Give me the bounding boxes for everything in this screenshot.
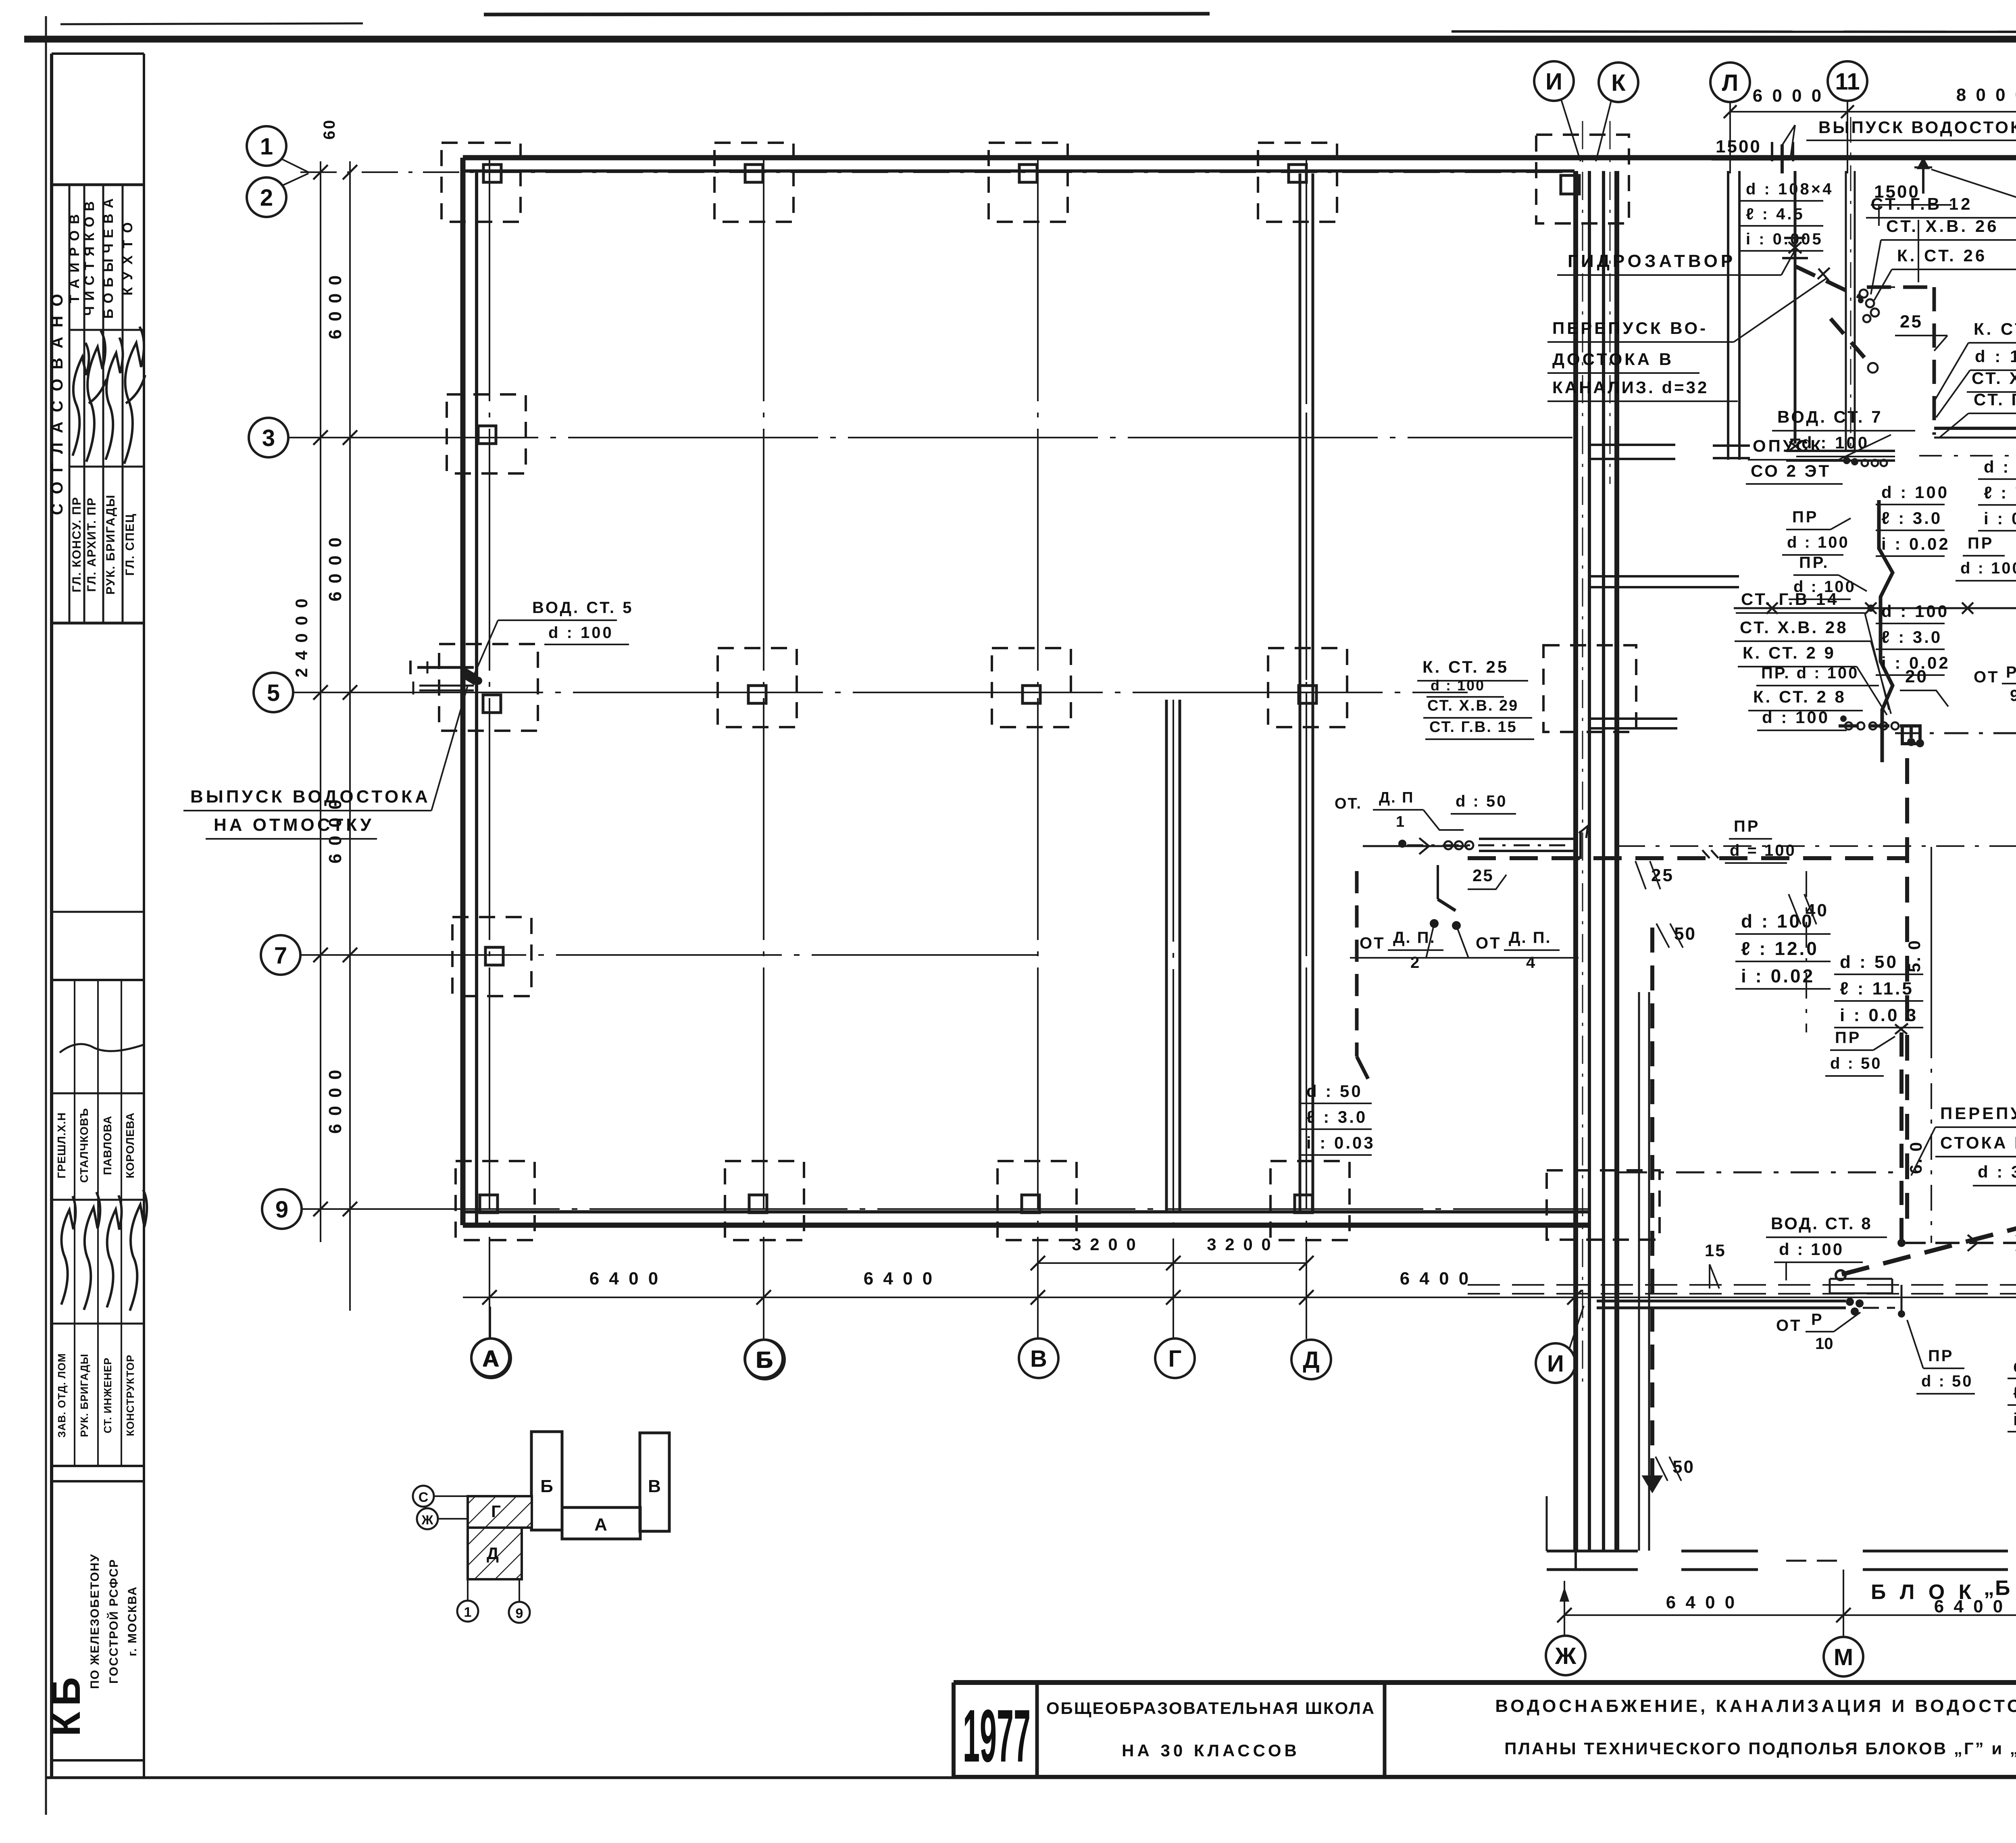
svg-text:ГЛ. АРХИТ. ПР: ГЛ. АРХИТ. ПР bbox=[85, 497, 98, 592]
svg-text:25: 25 bbox=[1472, 866, 1494, 885]
svg-text:Т А И Р О В: Т А И Р О В bbox=[67, 213, 82, 303]
svg-text:1977: 1977 bbox=[963, 1695, 1031, 1778]
junction dots under опуск bbox=[1843, 457, 1887, 466]
key plan hatched block Д bbox=[468, 1528, 522, 1579]
svg-text:ПАВЛОВА: ПАВЛОВА bbox=[101, 1115, 114, 1175]
axis circle Ж bottom bbox=[1546, 1636, 1585, 1675]
svg-text:ОТ: ОТ bbox=[1776, 1317, 1802, 1334]
title block year 1977 bbox=[963, 1695, 1031, 1778]
svg-text:3: 3 bbox=[262, 425, 275, 451]
svg-text:ПР: ПР bbox=[1928, 1347, 1954, 1365]
svg-text:ПЛАНЫ ТЕХНИЧЕСКОГО ПОДПОЛЬЯ БЛ: ПЛАНЫ ТЕХНИЧЕСКОГО ПОДПОЛЬЯ БЛОКОВ „Г” и… bbox=[1504, 1739, 2016, 1758]
key plan circle Б bbox=[745, 1340, 783, 1378]
label от Д.П./4 bbox=[1476, 929, 1579, 972]
bottom dim line and labels 6400 6400 bbox=[1557, 1570, 2016, 1636]
svg-text:И: И bbox=[1547, 1351, 1564, 1377]
left plan left wall bbox=[463, 158, 477, 1225]
svg-text:К. СТ. 26: К. СТ. 26 bbox=[1897, 246, 1987, 265]
svg-text:ОПУСК: ОПУСК bbox=[1753, 436, 1823, 455]
stamp row 3: РУК.БРИГАДЫ / БОБЫЧЕВА bbox=[101, 198, 117, 595]
dash drain from axis5 down bbox=[1357, 871, 1368, 1079]
interior wall y1130 segments bbox=[1589, 445, 2016, 587]
label от Д.П./2 bbox=[1350, 929, 1481, 972]
label вод.ст.7 d:100 bbox=[1772, 407, 1915, 457]
svg-text:60: 60 bbox=[321, 119, 338, 140]
svg-text:ВЫПУСК ВОДОСТОКА: ВЫПУСК ВОДОСТОКА bbox=[190, 787, 431, 807]
svg-text:Д. П.: Д. П. bbox=[1509, 929, 1552, 947]
stack d:100 l:7.0 i:0.32 bbox=[1978, 457, 2016, 531]
stamp row 2: ГЛ.АРХИТ.ПР / ЧИСТЯКОВ bbox=[82, 200, 98, 592]
stack d:50 l:3.0 i:0.03 bbox=[1301, 1082, 1375, 1155]
svg-text:d : 100: d : 100 bbox=[1975, 347, 2016, 366]
label от Д.П/1 d:50 bbox=[1335, 789, 1516, 830]
KB logo bbox=[44, 1672, 89, 1737]
svg-text:d : 50: d : 50 bbox=[1840, 952, 1898, 972]
label Блок Б bbox=[1871, 1576, 2016, 1604]
svg-text:5. 0: 5. 0 bbox=[1905, 939, 1924, 972]
axis circle Г bbox=[1155, 1338, 1195, 1378]
svg-text:КБ: КБ bbox=[44, 1672, 89, 1737]
partition wall at axis Г bbox=[1166, 700, 1180, 1212]
heavy dashed room boundary upper right bbox=[1867, 287, 1935, 435]
svg-text:СТ. Х.В. 29: СТ. Х.В. 29 bbox=[1427, 697, 1518, 714]
thin verticals lower area bbox=[1806, 871, 1931, 1243]
sidebar stamp table 1 (СОГЛАСОВАНО) gridlines bbox=[52, 185, 144, 623]
svg-text:ГЛ. КОНСУ. ПР: ГЛ. КОНСУ. ПР bbox=[70, 496, 83, 592]
svg-text:d : 100: d : 100 bbox=[1960, 559, 2016, 577]
stack d:100 l:3.0 i:0.02 (upper center) bbox=[1876, 483, 1950, 556]
svg-text:г. МОСКВА: г. МОСКВА bbox=[126, 1586, 139, 1656]
inner vertical thin wall x4062-4090 lower bbox=[1639, 992, 1649, 1551]
axis circle А bbox=[471, 1338, 511, 1378]
label stack к.ст.27 d:100 ст.х.в.27 bbox=[1935, 319, 2016, 417]
riser pipe with hydro-seal at Л bbox=[1782, 171, 1808, 450]
key plan block А bbox=[562, 1507, 640, 1539]
junction circles row lower center bbox=[1840, 715, 1899, 730]
label Перепуск водостока в канализ d=32 bbox=[1547, 278, 1826, 401]
svg-text:ПЕРЕПУСК ВОДО-: ПЕРЕПУСК ВОДО- bbox=[1940, 1104, 2016, 1123]
axis circle 7 + line bbox=[261, 935, 1048, 975]
interior wall pair at 11 axis bbox=[1846, 171, 1855, 451]
svg-text:3 2 0 0: 3 2 0 0 bbox=[1207, 1235, 1272, 1254]
axis Б vertical line bbox=[763, 159, 764, 1339]
svg-text:6 4 0 0: 6 4 0 0 bbox=[864, 1269, 935, 1288]
lower corridor dashed lines y3195 bbox=[1468, 1279, 2016, 1294]
svg-text:КАНАЛИЗ. d=32: КАНАЛИЗ. d=32 bbox=[1552, 378, 1709, 397]
axis circle К top bbox=[1596, 63, 1638, 161]
svg-text:РУК. БРИГАДЫ: РУК. БРИГАДЫ bbox=[78, 1353, 90, 1437]
main drain horizontal at y2110 bbox=[1363, 826, 2016, 859]
key plan circle 1 small bbox=[457, 1579, 478, 1622]
svg-text:d : 32: d : 32 bbox=[1978, 1162, 2016, 1181]
axis И circle bottom bbox=[1536, 1306, 1584, 1383]
svg-text:d : 100: d : 100 bbox=[1881, 483, 1949, 502]
right plan И wall bbox=[1576, 171, 1589, 1551]
axis circle М bottom bbox=[1824, 1637, 1863, 1676]
svg-text:d : 100: d : 100 bbox=[1984, 457, 2016, 476]
svg-text:В: В bbox=[1030, 1346, 1047, 1372]
svg-text:ПР: ПР bbox=[1968, 534, 1994, 552]
label 25 (upper) bbox=[1895, 312, 1947, 351]
right plan К wall bbox=[1604, 171, 1617, 1551]
dashed drop pipe from riser bbox=[1795, 266, 1878, 373]
svg-text:d : 50: d : 50 bbox=[1306, 1082, 1363, 1101]
title block outline bbox=[954, 1682, 2016, 1777]
sidebar stamp table 2 gridlines bbox=[52, 912, 144, 1466]
axis И vertical dash-dot bbox=[1582, 121, 1583, 1387]
title block sheet title bbox=[1495, 1696, 2016, 1758]
label пр d:100 (mid right) bbox=[1956, 534, 2016, 581]
left plan top wall bbox=[463, 158, 2016, 171]
svg-text:СТ. Г.В. 15: СТ. Г.В. 15 bbox=[1429, 719, 1517, 736]
label Перепуск водостока в канализ d:32 (lower) bbox=[1911, 1104, 2016, 1186]
svg-text:d : 100: d : 100 bbox=[1762, 708, 1830, 727]
stack d:100 l:3.0 i:0.02 (lower center) bbox=[1876, 602, 1950, 675]
svg-text:20: 20 bbox=[1905, 667, 1928, 686]
bottom walls of block Б bbox=[1547, 1496, 2016, 1570]
stack d:108x4 l:7.0 i:0.005 bbox=[2008, 1356, 2016, 1432]
junction circles row at axis5 area bbox=[1398, 838, 1574, 854]
svg-text:Л: Л bbox=[1722, 70, 1739, 96]
heavy drain bottom left with 50 label bbox=[1643, 928, 1695, 1492]
axis circle Д bbox=[1291, 1340, 1331, 1379]
svg-text:С О Г Л А С О В А Н О: С О Г Л А С О В А Н О bbox=[48, 292, 66, 515]
svg-text:ПР.: ПР. bbox=[1799, 554, 1830, 571]
KB block rotated text bbox=[88, 1553, 139, 1689]
bottom dimension line 6400s bbox=[463, 1269, 2016, 1305]
label stack d:108x4 l:4.5 i:0.0005 bbox=[1740, 180, 1833, 251]
svg-text:Б: Б bbox=[756, 1347, 772, 1372]
svg-text:ℓ : 3.0: ℓ : 3.0 bbox=[1306, 1107, 1367, 1126]
svg-text:В: В bbox=[648, 1476, 661, 1496]
key plan circle А bbox=[471, 1307, 509, 1376]
svg-text:Б Л О К: Б Л О К bbox=[1871, 1580, 1975, 1604]
svg-text:ГИДРОЗАТВОР: ГИДРОЗАТВОР bbox=[1568, 251, 1736, 271]
column squares row 5 bbox=[439, 644, 1347, 731]
sidebar text СОГЛАСОВАНО (rotated) bbox=[48, 292, 66, 515]
axis circle В bbox=[1019, 1338, 1058, 1378]
svg-text:50: 50 bbox=[1674, 924, 1696, 944]
svg-text:Д: Д bbox=[487, 1544, 499, 1563]
svg-text:6 4 0 0: 6 4 0 0 bbox=[1666, 1593, 1737, 1612]
label 25 near И bbox=[1468, 866, 1506, 889]
sheet left border bbox=[45, 16, 47, 1815]
axis circle И top bbox=[1534, 61, 1581, 161]
svg-text:К У Х Т О: К У Х Т О bbox=[120, 221, 135, 296]
sheet top border bbox=[24, 14, 2016, 39]
stamp 2 names column bbox=[55, 1108, 136, 1183]
svg-text:ВОД. СТ. 8: ВОД. СТ. 8 bbox=[1771, 1214, 1872, 1233]
svg-text:i : 0.03: i : 0.03 bbox=[1306, 1133, 1375, 1152]
svg-text:Р: Р bbox=[2006, 663, 2016, 681]
svg-text:d : 100: d : 100 bbox=[1779, 1240, 1844, 1259]
sheet bottom border bbox=[46, 1776, 2016, 1779]
label Гидрозатвор (top) bbox=[1557, 250, 1795, 275]
svg-text:ОТ: ОТ bbox=[1360, 934, 1385, 952]
wall segments y1790 near И bbox=[1589, 719, 1677, 728]
svg-text:СТ. Г.В. 13: СТ. Г.В. 13 bbox=[1974, 390, 2016, 409]
svg-text:Б О Б Ы Ч Е В А: Б О Б Ы Ч Е В А bbox=[101, 198, 116, 319]
svg-text:СТ. Х.В. 27: СТ. Х.В. 27 bbox=[1972, 369, 2016, 388]
svg-text:6 0 0 0: 6 0 0 0 bbox=[325, 1068, 345, 1134]
svg-text:d : 100: d : 100 bbox=[1431, 677, 1485, 694]
label пр d:50 bottom bbox=[1907, 1320, 1975, 1394]
svg-text:i : 0.02: i : 0.02 bbox=[1881, 534, 1950, 553]
svg-text:d : 100: d : 100 bbox=[548, 624, 614, 642]
svg-text:А: А bbox=[594, 1515, 607, 1534]
svg-text:СТАЛЧКОВЪ: СТАЛЧКОВЪ bbox=[78, 1108, 90, 1183]
water inlet pipes at row 5 bbox=[410, 661, 482, 694]
heavy vertical drain x4730 with labels 5.0 6.0 bbox=[1905, 758, 1931, 1230]
svg-text:НА ОТМОСТКУ: НА ОТМОСТКУ bbox=[214, 815, 374, 835]
svg-text:А: А bbox=[482, 1346, 498, 1371]
left dimension chain lines bbox=[313, 161, 357, 1311]
svg-text:1500: 1500 bbox=[1716, 137, 1762, 156]
axis К vertical dash-dot bbox=[1610, 121, 1611, 484]
svg-text:ℓ : 3.0: ℓ : 3.0 bbox=[1881, 628, 1942, 646]
axis circle 5 + line bbox=[254, 673, 1468, 712]
bottom heavy water pipe pair bbox=[1597, 1298, 1895, 1316]
label 50 upper flag bbox=[1656, 924, 1696, 948]
svg-text:d = 100: d = 100 bbox=[1730, 842, 1796, 859]
stack d:100 l:12.0 i:0.02 bbox=[1735, 911, 1831, 989]
svg-text:ВОД. СТ. 5: ВОД. СТ. 5 bbox=[532, 599, 633, 617]
label Выпуск водостока на отмостку (left) bbox=[183, 686, 468, 839]
svg-text:М: М bbox=[1834, 1644, 1853, 1670]
svg-text:СТ. Х.В. 28: СТ. Х.В. 28 bbox=[1740, 618, 1848, 637]
svg-text:d : 100: d : 100 bbox=[1881, 602, 1949, 621]
diagonal drain to outfall bbox=[1836, 1032, 2016, 1318]
label Выпуск водостока на отмостку (top) bbox=[1806, 118, 2016, 140]
svg-text:50: 50 bbox=[1672, 1457, 1695, 1477]
sidebar outer box bbox=[52, 54, 144, 1778]
key plan circle 9 small bbox=[509, 1579, 530, 1623]
axis circle Л top bbox=[1710, 63, 1750, 173]
svg-text:1: 1 bbox=[260, 133, 273, 160]
svg-text:ПР: ПР bbox=[1734, 817, 1760, 835]
svg-text:Б: Б bbox=[540, 1476, 553, 1496]
label ВОД.СТ.5 d:100 bbox=[473, 599, 633, 678]
label 15 flag bbox=[1705, 1241, 1726, 1288]
label пр. d:100 (center2) bbox=[1789, 554, 1867, 599]
svg-text:СТОКА В КАНАЛИЗ.: СТОКА В КАНАЛИЗ. bbox=[1940, 1133, 2016, 1152]
column square at И row9 bbox=[1547, 1170, 1660, 1240]
svg-text:ПР: ПР bbox=[1835, 1029, 1861, 1047]
svg-text:2: 2 bbox=[260, 185, 273, 211]
svg-text:9: 9 bbox=[275, 1197, 288, 1223]
water line horizontal mid with hydrants bbox=[1734, 603, 2016, 617]
axis circle 11 top bbox=[1828, 61, 1867, 173]
svg-text:6 4 0 0: 6 4 0 0 bbox=[589, 1269, 661, 1288]
svg-text:6 0 0 0: 6 0 0 0 bbox=[1753, 86, 1824, 106]
svg-text:5: 5 bbox=[267, 680, 280, 706]
svg-text:ОТ: ОТ bbox=[1974, 668, 1999, 686]
heavy drain zigzag center bbox=[1879, 500, 1893, 762]
axis circle Б bbox=[745, 1340, 785, 1379]
svg-text:1: 1 bbox=[464, 1605, 472, 1620]
svg-text:i : 0.32: i : 0.32 bbox=[1984, 509, 2016, 528]
drain pipe at Л bbox=[1728, 171, 1739, 460]
svg-text:ЗАВ. ОТД. ЛОМ: ЗАВ. ОТД. ЛОМ bbox=[56, 1353, 68, 1438]
top dimension line 6000 8000 bbox=[1724, 85, 2016, 118]
svg-text:11: 11 bbox=[1835, 69, 1860, 95]
column square row3 col А bbox=[447, 394, 526, 473]
stack К.ст.25 d:100 Ст.х.в.29 Ст.г.в.15 bbox=[1417, 657, 1534, 739]
svg-text:d : 108×4: d : 108×4 bbox=[1746, 180, 1833, 198]
svg-text:10: 10 bbox=[1815, 1335, 1833, 1353]
label 20 bbox=[1900, 667, 1948, 707]
stamp table 1 signatures bbox=[73, 327, 145, 464]
svg-text:d : 100: d : 100 bbox=[1787, 534, 1849, 551]
dp riser symbol bbox=[1402, 865, 1493, 958]
svg-text:ОТ: ОТ bbox=[1476, 934, 1502, 952]
column squares row 9 bbox=[456, 1161, 1350, 1240]
svg-text:ПР. d : 100: ПР. d : 100 bbox=[1761, 664, 1859, 682]
dimension 3200/3200 line bbox=[1031, 1235, 1314, 1270]
svg-text:К. СТ. 2 9: К. СТ. 2 9 bbox=[1743, 643, 1836, 662]
svg-text:„Б ”: „Б ” bbox=[1984, 1576, 2016, 1600]
svg-text:СТ. ИНЖЕНЕР: СТ. ИНЖЕНЕР bbox=[102, 1357, 114, 1433]
svg-text:Р: Р bbox=[1811, 1311, 1822, 1328]
svg-text:ℓ : 7.0: ℓ : 7.0 bbox=[1984, 483, 2016, 502]
axis Г vertical line bbox=[1173, 700, 1174, 1339]
svg-text:ПО ЖЕЛЕЗОБЕТОНУ: ПО ЖЕЛЕЗОБЕТОНУ bbox=[88, 1553, 102, 1689]
key plan circle С small bbox=[413, 1486, 468, 1507]
stamp row 1: ГЛ.КОНСУ.ПР / ТАИРОВ bbox=[67, 213, 83, 592]
svg-text:i : 0.0 3: i : 0.0 3 bbox=[1840, 1005, 1918, 1025]
label вод.ст.8 d:100 bbox=[1766, 1214, 1887, 1280]
svg-text:СТ. Г.В 12: СТ. Г.В 12 bbox=[1871, 194, 1973, 213]
stamp 2 titles column bbox=[56, 1353, 136, 1438]
room wall horizontal at y1078 bbox=[1934, 428, 2016, 438]
svg-text:6 4 0 0: 6 4 0 0 bbox=[1400, 1269, 1471, 1288]
1500 dimension labels top bbox=[1712, 125, 1951, 226]
svg-text:И: И bbox=[1545, 69, 1562, 95]
svg-text:К. СТ. 27: К. СТ. 27 bbox=[1974, 319, 2016, 338]
label ст.г.в 12 bbox=[1866, 194, 2016, 282]
svg-text:Г: Г bbox=[491, 1502, 501, 1521]
column square at И top bbox=[1536, 135, 1629, 223]
dimension labels 60 / 6000 / 24000 bbox=[292, 119, 345, 1134]
svg-text:d : 50: d : 50 bbox=[1921, 1372, 1973, 1390]
axis 11 dash-dot in plan bbox=[1850, 117, 1851, 452]
svg-text:6 0 0 0: 6 0 0 0 bbox=[325, 274, 345, 340]
svg-text:СТ. Х.В. 26: СТ. Х.В. 26 bbox=[1886, 217, 1999, 236]
roof drain outlet symbol top (Л) bbox=[1772, 125, 1795, 173]
label поливочный кран bbox=[1931, 169, 2016, 227]
stamp 2 signatures bbox=[60, 1044, 147, 1311]
pipe junction circles cluster upper bbox=[1858, 290, 1879, 322]
label ст.г.в.13 bbox=[1939, 390, 2016, 438]
svg-text:Д: Д bbox=[1303, 1347, 1319, 1373]
left plan bottom wall bbox=[463, 1212, 1589, 1225]
поливочный кран symbol on wall bbox=[1914, 158, 1932, 194]
svg-text:ДОСТОКА В: ДОСТОКА В bbox=[1552, 350, 1674, 369]
svg-text:ГРЕШЛ.Х.Н: ГРЕШЛ.Х.Н bbox=[55, 1112, 68, 1178]
svg-text:Ч И С Т Я К О В: Ч И С Т Я К О В bbox=[82, 200, 97, 316]
column squares row 1 bbox=[442, 143, 1337, 222]
label от Р/10 bbox=[1776, 1311, 1860, 1353]
svg-text:Г: Г bbox=[1168, 1346, 1182, 1372]
svg-text:i : 0.02: i : 0.02 bbox=[1741, 965, 1815, 986]
label от Р/9 bbox=[1974, 663, 2016, 705]
svg-text:7: 7 bbox=[274, 942, 287, 969]
svg-text:6. 0: 6. 0 bbox=[1906, 1141, 1925, 1174]
axis circle 9 + line bbox=[262, 1189, 1589, 1229]
label опуск со 2 эт bbox=[1746, 435, 1891, 484]
svg-text:С: С bbox=[419, 1490, 429, 1505]
svg-text:ВОДОСНАБЖЕНИЕ, КАНАЛИЗАЦИЯ И В: ВОДОСНАБЖЕНИЕ, КАНАЛИЗАЦИЯ И ВОДОСТОКИ bbox=[1495, 1696, 2016, 1716]
svg-text:ℓ : 7.0: ℓ : 7.0 bbox=[2013, 1383, 2016, 1403]
svg-text:ПР: ПР bbox=[1792, 508, 1818, 526]
svg-text:КОНСТРУКТОР: КОНСТРУКТОР bbox=[124, 1355, 136, 1436]
svg-text:ОТ.: ОТ. bbox=[1335, 795, 1362, 812]
svg-text:К. СТ. 25: К. СТ. 25 bbox=[1422, 657, 1509, 676]
svg-text:9: 9 bbox=[516, 1606, 523, 1621]
svg-text:ВЫПУСК ВОДОСТОКА НА ОТМОС: ВЫПУСК ВОДОСТОКА НА ОТМОСТКУ bbox=[1818, 118, 2016, 137]
title block school name bbox=[1046, 1699, 1375, 1760]
svg-text:i : 0.0 0 5: i : 0.0 0 5 bbox=[2013, 1409, 2016, 1429]
svg-text:d : 108×4: d : 108×4 bbox=[2013, 1356, 2016, 1376]
axis circle 1 left bbox=[247, 126, 308, 172]
sidebar KB block box bbox=[52, 1481, 144, 1760]
svg-text:НА 30 КЛАССОВ: НА 30 КЛАССОВ bbox=[1122, 1741, 1300, 1760]
svg-text:9: 9 bbox=[2010, 687, 2016, 705]
axis line 1 (horizontal datum) bbox=[300, 171, 2016, 173]
drain main from junction to wall bbox=[1839, 726, 2016, 747]
svg-text:4: 4 bbox=[1526, 954, 1535, 972]
svg-text:ОБЩЕОБРАЗОВАТЕЛЬНАЯ ШКОЛА: ОБЩЕОБРАЗОВАТЕЛЬНАЯ ШКОЛА bbox=[1046, 1699, 1375, 1718]
key plan circle Ж small bbox=[417, 1508, 468, 1529]
corridor dash line y2907 bbox=[1619, 1172, 1895, 1174]
svg-text:d : 50: d : 50 bbox=[1830, 1055, 1882, 1072]
svg-text:СО 2 ЭТ: СО 2 ЭТ bbox=[1751, 461, 1831, 480]
label 40 flag bbox=[1789, 894, 1829, 924]
axis В vertical line bbox=[1037, 159, 1039, 1339]
svg-text:25: 25 bbox=[1900, 312, 1923, 331]
svg-text:Ж: Ж bbox=[1555, 1643, 1577, 1669]
axis Д vertical line bbox=[1306, 159, 1307, 1339]
labels Ст.г.в 14 / Ст.х.в.28 / К.ст.29 / пр.d:100 / К.ст.28 / d:100 bbox=[1735, 590, 1891, 730]
svg-text:СТ. Г.В 14: СТ. Г.В 14 bbox=[1741, 590, 1839, 609]
label ст.х.в.26 / к.ст.26 bbox=[1871, 217, 2016, 300]
svg-text:d : 50: d : 50 bbox=[1456, 792, 1507, 810]
stack d:50 l:11.5 i:0.03 bbox=[1834, 952, 1923, 1028]
svg-text:ГЛ. СПЕЦ: ГЛ. СПЕЦ bbox=[123, 513, 137, 575]
svg-text:ℓ : 3.0: ℓ : 3.0 bbox=[1881, 509, 1942, 527]
svg-text:РУК. БРИГАДЫ: РУК. БРИГАДЫ bbox=[104, 494, 117, 594]
svg-text:3 2 0 0: 3 2 0 0 bbox=[1072, 1235, 1137, 1254]
key plan block Б bbox=[531, 1432, 562, 1530]
svg-text:К. СТ. 2 8: К. СТ. 2 8 bbox=[1753, 687, 1846, 706]
svg-text:15: 15 bbox=[1705, 1241, 1726, 1260]
svg-text:ПЕРЕПУСК ВО-: ПЕРЕПУСК ВО- bbox=[1552, 319, 1708, 338]
axis А vertical line bbox=[489, 159, 490, 1339]
svg-text:6 0 0 0: 6 0 0 0 bbox=[325, 536, 345, 602]
svg-text:Д. П: Д. П bbox=[1379, 789, 1414, 806]
svg-text:ВОД. СТ. 7: ВОД. СТ. 7 bbox=[1777, 407, 1883, 426]
svg-text:2: 2 bbox=[1410, 954, 1419, 972]
svg-text:ℓ : 11.5: ℓ : 11.5 bbox=[1840, 979, 1914, 999]
column square at И row5 bbox=[1543, 645, 1636, 732]
label пр d:100 above main bbox=[1702, 817, 1796, 863]
label 25 flag left bbox=[1635, 861, 1674, 889]
svg-text:К: К bbox=[1611, 70, 1626, 96]
column square row7 col А bbox=[452, 917, 531, 996]
drain pipe shaft at axis Д bbox=[1300, 173, 1313, 1212]
axis circle 3 + line bbox=[249, 418, 1572, 457]
label пр d:50 at 2560 bbox=[1825, 1024, 1908, 1076]
